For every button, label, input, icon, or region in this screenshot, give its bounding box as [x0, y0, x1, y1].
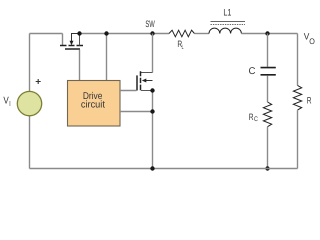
wire: RC to bottom rail — [267, 127, 269, 169]
resistor RL — [169, 30, 194, 37]
wire: RL to L1 — [194, 33, 209, 35]
wire: drive circuit to Q2 gate — [120, 90, 137, 92]
svg-text:R: R — [307, 96, 312, 106]
junction: RC at bottom rail — [265, 166, 269, 170]
junction: output cap tap — [265, 31, 269, 35]
wire: load R to bottom rail — [297, 110, 299, 168]
wire: Q1 gate to drive circuit — [79, 50, 81, 81]
Q1 drain stub — [79, 34, 81, 46]
wire: cap branch upper lead — [267, 34, 269, 67]
Q2 source stub — [141, 90, 153, 92]
junction: SW column at bottom rail — [150, 166, 154, 170]
source VI (circle symbol) — [17, 91, 41, 115]
drive circuit block U1 — [68, 81, 121, 127]
wire: cap to RC — [267, 76, 269, 102]
Q1 body arrow — [72, 34, 80, 42]
svg-text:I: I — [9, 99, 10, 108]
Q2 body arrow — [146, 80, 153, 82]
Q2 gate bar — [136, 75, 138, 90]
svg-text:SW: SW — [145, 18, 154, 29]
wire: left branch above source VI — [29, 34, 31, 92]
wire: left branch below source VI — [29, 116, 31, 169]
svg-text:C: C — [249, 66, 256, 77]
wire: top rail left segment (Vi+ to Q1 source) — [30, 33, 63, 35]
Q1 gate bar — [65, 48, 80, 50]
junction: sense line node — [150, 109, 154, 113]
transistor Q1 (high-side MOSFET) — [60, 34, 83, 50]
wire: output drop to load R — [297, 34, 299, 86]
wire: top rail (Q1 drain to SW node and RL) — [80, 33, 170, 35]
Q2 channel dashes — [140, 71, 142, 90]
wire: Q2 source down to bottom rail — [152, 91, 154, 169]
wire: drive circuit sense line to SW column — [120, 111, 153, 113]
wire: rail tap down to drive circuit — [106, 34, 108, 81]
resistor RC (ESR) — [263, 102, 271, 127]
junction: rail to drive tap — [104, 31, 108, 35]
polarity plus sign — [36, 79, 41, 84]
wire: SW down to Q2 drain — [152, 34, 154, 73]
svg-text:L: L — [182, 44, 184, 51]
transistor Q2 (low-side MOSFET) — [137, 71, 153, 90]
Q1 channel dashes — [60, 45, 83, 47]
junction: Q2 source node — [150, 88, 154, 92]
wire: L1 to output node VO — [241, 33, 297, 35]
capacitor C plates — [261, 68, 276, 75]
wire: bottom rail (ground return) — [30, 168, 298, 170]
L1 core line dashed — [211, 24, 246, 26]
svg-text:circuit: circuit — [81, 100, 105, 111]
Q1 source stub — [62, 34, 64, 46]
svg-text:L1: L1 — [223, 7, 231, 18]
junction: Q1 drain on rail — [77, 31, 81, 35]
node SW (junction dot) — [150, 31, 154, 35]
svg-text:O: O — [309, 37, 315, 46]
resistor R (load) — [293, 85, 301, 110]
L1 core line solid — [211, 21, 246, 23]
Q2 drain stub — [141, 72, 153, 74]
svg-text:C: C — [254, 116, 258, 123]
inductor L1 — [209, 28, 241, 33]
